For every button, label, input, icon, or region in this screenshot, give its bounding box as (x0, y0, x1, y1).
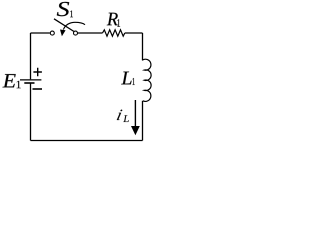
label R1 letter R (107, 13, 118, 26)
wire: right vertical lower segment (142, 101, 144, 141)
wire: right vertical upper segment (142, 33, 144, 60)
battery E1 negative plate (short) (24, 82, 34, 84)
resistor R1 (103, 30, 125, 36)
switch S1 left terminal (50, 31, 54, 35)
label L1 letter L (121, 72, 131, 85)
label L1 subscript 1 (132, 78, 134, 85)
label E1 letter E (2, 74, 15, 87)
switch S1 arrowhead (60, 30, 66, 37)
switch S1 closing arc (63, 22, 85, 29)
current arrow iL shaft (134, 100, 136, 128)
label E1 subscript 1 (17, 81, 21, 88)
wire: bottom horizontal segment (31, 140, 143, 142)
battery E1 minus sign (33, 88, 43, 90)
battery E1 plus sign (33, 68, 42, 77)
label S1 letter S (57, 2, 69, 16)
switch S1 blade (54, 19, 74, 32)
switch S1 right terminal (74, 31, 78, 35)
wire: left vertical lower segment (30, 83, 32, 140)
inductor L1 (142, 59, 151, 101)
label iL letter i (117, 110, 123, 120)
label R1 subscript 1 (117, 19, 120, 27)
current arrow iL head (131, 126, 140, 135)
label S1 subscript 1 (70, 10, 73, 17)
wire: left vertical upper segment (30, 33, 32, 79)
wire: top-left horizontal segment (31, 32, 50, 34)
label iL subscript L (123, 115, 129, 122)
wire: top-right horizontal segment (125, 32, 143, 34)
wire: top middle segment (78, 32, 103, 34)
battery E1 positive plate (long) (20, 79, 41, 81)
